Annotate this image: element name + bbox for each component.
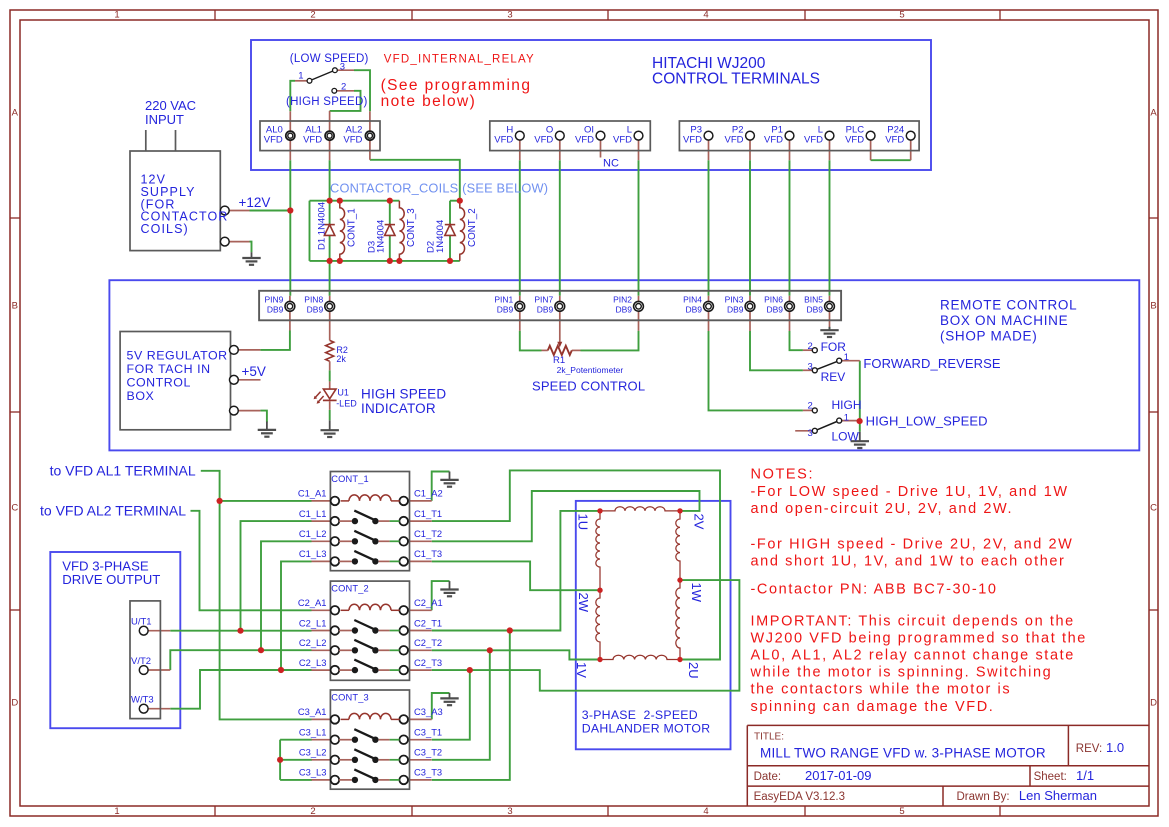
svg-text:3: 3 <box>507 10 512 21</box>
svg-text:CONTROL TERMINALS: CONTROL TERMINALS <box>652 71 820 88</box>
svg-text:INPUT: INPUT <box>145 112 184 127</box>
svg-text:Date:: Date: <box>754 771 782 783</box>
svg-text:VFD: VFD <box>494 134 513 145</box>
svg-text:5: 5 <box>899 806 904 817</box>
svg-text:DB9: DB9 <box>766 305 783 315</box>
svg-text:1N4004: 1N4004 <box>435 220 446 253</box>
svg-text:B: B <box>1150 301 1156 312</box>
svg-text:C3_L1: C3_L1 <box>299 727 327 738</box>
svg-text:C2_T1: C2_T1 <box>414 617 442 628</box>
svg-text:2V: 2V <box>692 514 707 530</box>
svg-text:DRIVE OUTPUT: DRIVE OUTPUT <box>62 572 160 587</box>
svg-text:220 VAC: 220 VAC <box>145 98 196 113</box>
svg-text:C3_T2: C3_T2 <box>414 747 442 758</box>
svg-text:1U: 1U <box>576 514 591 531</box>
svg-text:4: 4 <box>703 10 708 21</box>
svg-text:V/T2: V/T2 <box>131 656 151 667</box>
svg-text:CONT_1: CONT_1 <box>331 474 369 484</box>
svg-text:DB9: DB9 <box>806 305 823 315</box>
svg-text:HIGH SPEED: HIGH SPEED <box>361 387 446 402</box>
svg-text:WJ200 VFD being programmed so: WJ200 VFD being programmed so that the <box>751 630 1087 646</box>
svg-text:1W: 1W <box>689 583 704 603</box>
svg-text:LOW: LOW <box>832 429 860 443</box>
svg-text:3: 3 <box>808 428 813 439</box>
svg-text:VFD: VFD <box>534 134 553 145</box>
svg-text:C1_T2: C1_T2 <box>414 528 442 539</box>
svg-text:HITACHI WJ200: HITACHI WJ200 <box>652 55 766 72</box>
svg-text:C2_L2: C2_L2 <box>299 637 327 648</box>
svg-text:3: 3 <box>808 361 813 372</box>
svg-text:C1_L3: C1_L3 <box>299 548 327 559</box>
svg-text:to VFD AL1 TERMINAL: to VFD AL1 TERMINAL <box>50 463 196 479</box>
svg-text:REV: REV <box>821 370 846 384</box>
svg-text:-LED: -LED <box>336 399 357 409</box>
svg-text:A: A <box>1150 108 1157 119</box>
svg-text:PIN1: PIN1 <box>494 295 513 305</box>
svg-text:VFD: VFD <box>343 134 362 145</box>
svg-text:C1_L1: C1_L1 <box>299 508 327 519</box>
svg-text:C: C <box>11 503 18 514</box>
svg-text:CONT_3: CONT_3 <box>406 208 417 247</box>
svg-text:2U: 2U <box>686 662 701 679</box>
svg-text:Sheet:: Sheet: <box>1034 771 1067 783</box>
svg-text:C1_A1: C1_A1 <box>298 488 327 499</box>
svg-text:-Contactor PN: ABB BC7-30-10: -Contactor PN: ABB BC7-30-10 <box>751 581 998 597</box>
svg-text:C2_T3: C2_T3 <box>414 657 442 668</box>
svg-text:C1_L2: C1_L2 <box>299 528 327 539</box>
svg-text:+5V: +5V <box>242 364 266 379</box>
svg-text:2W: 2W <box>576 593 591 613</box>
svg-text:DB9: DB9 <box>615 305 632 315</box>
svg-text:3: 3 <box>340 61 345 72</box>
svg-text:COILS): COILS) <box>141 222 189 236</box>
svg-text:+12V: +12V <box>239 195 271 210</box>
svg-text:Drawn By:: Drawn By: <box>957 791 1010 803</box>
svg-text:C2_A1: C2_A1 <box>414 597 443 608</box>
svg-text:1/1: 1/1 <box>1076 768 1094 783</box>
svg-text:C3_A1: C3_A1 <box>298 706 327 717</box>
svg-text:VFD: VFD <box>613 134 632 145</box>
svg-text:C3_L3: C3_L3 <box>299 767 327 778</box>
svg-text:2: 2 <box>808 400 813 411</box>
svg-text:HIGH_LOW_SPEED: HIGH_LOW_SPEED <box>866 414 988 429</box>
svg-text:IMPORTANT: This circuit depend: IMPORTANT: This circuit depends on the <box>751 613 1075 629</box>
svg-text:PIN3: PIN3 <box>725 295 744 305</box>
svg-text:CONT_3: CONT_3 <box>331 692 369 702</box>
svg-text:1.0: 1.0 <box>1106 740 1124 755</box>
svg-text:D: D <box>11 698 18 709</box>
svg-text:C1_T1: C1_T1 <box>414 508 442 519</box>
svg-text:C2_T2: C2_T2 <box>414 637 442 648</box>
svg-text:BOX ON MACHINE: BOX ON MACHINE <box>940 313 1068 328</box>
svg-text:CONTROL: CONTROL <box>127 376 191 390</box>
svg-text:Len Sherman: Len Sherman <box>1019 788 1097 803</box>
svg-text:C: C <box>1150 503 1157 514</box>
svg-text:FOR: FOR <box>821 340 847 354</box>
svg-text:BIN5: BIN5 <box>804 295 823 305</box>
svg-text:(LOW SPEED): (LOW SPEED) <box>290 53 369 65</box>
svg-text:CONT_2: CONT_2 <box>331 584 369 594</box>
svg-text:2: 2 <box>808 341 813 352</box>
svg-text:C3_T1: C3_T1 <box>414 727 442 738</box>
svg-text:while the motor is spinning. S: while the motor is spinning. Switching <box>750 665 1053 681</box>
svg-text:VFD: VFD <box>845 134 864 145</box>
svg-text:VFD: VFD <box>303 134 322 145</box>
svg-text:PIN4: PIN4 <box>683 295 702 305</box>
svg-text:2: 2 <box>310 806 315 817</box>
svg-text:C3_A3: C3_A3 <box>414 706 443 717</box>
svg-text:TITLE:: TITLE: <box>754 732 784 743</box>
svg-text:(See programming: (See programming <box>381 77 532 94</box>
svg-text:and open-circuit 2U, 2V, and 2: and open-circuit 2U, 2V, and 2W. <box>751 501 1014 517</box>
svg-text:CONTACTOR_COILS (SEE BELOW): CONTACTOR_COILS (SEE BELOW) <box>330 181 548 196</box>
svg-text:DB9: DB9 <box>307 305 324 315</box>
svg-text:U/T1: U/T1 <box>131 617 152 628</box>
svg-text:A: A <box>12 108 19 119</box>
svg-text:CONT_1: CONT_1 <box>347 208 358 247</box>
svg-text:(HIGH SPEED): (HIGH SPEED) <box>286 96 368 108</box>
svg-text:C2_A1: C2_A1 <box>298 597 327 608</box>
svg-text:2k: 2k <box>336 354 346 364</box>
svg-text:VFD: VFD <box>804 134 823 145</box>
svg-text:C2_L1: C2_L1 <box>299 617 327 628</box>
svg-text:DB9: DB9 <box>727 305 744 315</box>
svg-text:-For LOW speed - Drive 1U, 1V,: -For LOW speed - Drive 1U, 1V, and 1W <box>751 484 1069 500</box>
svg-text:VFD: VFD <box>683 134 702 145</box>
svg-text:REMOTE CONTROL: REMOTE CONTROL <box>940 298 1077 313</box>
svg-text:INDICATOR: INDICATOR <box>361 401 436 416</box>
svg-text:VFD: VFD <box>885 134 904 145</box>
svg-text:AL0, AL1, AL2 relay cannot cha: AL0, AL1, AL2 relay cannot change state <box>751 648 1075 664</box>
svg-text:2017-01-09: 2017-01-09 <box>805 768 872 783</box>
svg-text:SPEED CONTROL: SPEED CONTROL <box>532 379 645 394</box>
svg-text:VFD: VFD <box>764 134 783 145</box>
svg-text:1: 1 <box>844 412 849 423</box>
svg-text:C3_L2: C3_L2 <box>299 747 327 758</box>
svg-text:NC: NC <box>603 158 619 170</box>
svg-text:2: 2 <box>341 82 346 93</box>
svg-text:MILL TWO RANGE VFD w. 3-PHASE: MILL TWO RANGE VFD w. 3-PHASE MOTOR <box>760 746 1046 761</box>
svg-text:3-PHASE 2-SPEED: 3-PHASE 2-SPEED <box>582 708 698 722</box>
svg-text:PIN6: PIN6 <box>764 295 783 305</box>
svg-text:FOR TACH IN: FOR TACH IN <box>127 362 211 376</box>
svg-text:DAHLANDER MOTOR: DAHLANDER MOTOR <box>582 722 711 736</box>
svg-text:D: D <box>1150 698 1157 709</box>
svg-text:1: 1 <box>114 10 119 21</box>
svg-text:and short 1U, 1V, and 1W to ea: and short 1U, 1V, and 1W to each other <box>751 554 1066 570</box>
svg-text:DB9: DB9 <box>497 305 514 315</box>
svg-text:C2_L3: C2_L3 <box>299 657 327 668</box>
svg-text:B: B <box>12 301 18 312</box>
svg-text:5: 5 <box>899 10 904 21</box>
svg-text:W/T3: W/T3 <box>131 695 154 706</box>
svg-text:1: 1 <box>114 806 119 817</box>
svg-text:EasyEDA V3.12.3: EasyEDA V3.12.3 <box>754 791 845 803</box>
svg-text:4: 4 <box>703 806 708 817</box>
svg-text:PIN2: PIN2 <box>613 295 632 305</box>
svg-text:to VFD AL2 TERMINAL: to VFD AL2 TERMINAL <box>40 503 186 519</box>
svg-text:PIN7: PIN7 <box>534 295 553 305</box>
svg-text:VFD: VFD <box>725 134 744 145</box>
svg-text:DB9: DB9 <box>267 305 284 315</box>
svg-text:PIN8: PIN8 <box>304 295 323 305</box>
svg-text:FORWARD_REVERSE: FORWARD_REVERSE <box>863 356 1001 371</box>
svg-text:DB9: DB9 <box>685 305 702 315</box>
svg-text:DB9: DB9 <box>537 305 554 315</box>
svg-text:C3_T3: C3_T3 <box>414 767 442 778</box>
svg-text:1N4004: 1N4004 <box>375 220 386 253</box>
svg-text:1V: 1V <box>574 662 589 678</box>
svg-text:5V REGULATOR: 5V REGULATOR <box>127 349 228 363</box>
svg-text:REV:: REV: <box>1076 743 1102 755</box>
svg-text:2: 2 <box>310 10 315 21</box>
svg-text:U1: U1 <box>337 387 349 397</box>
svg-text:VFD: VFD <box>575 134 594 145</box>
svg-text:CONT_2: CONT_2 <box>467 208 478 247</box>
svg-text:HIGH: HIGH <box>832 398 862 412</box>
svg-text:C1_T3: C1_T3 <box>414 548 442 559</box>
svg-text:2k_Potentiometer: 2k_Potentiometer <box>557 365 624 375</box>
svg-text:(SHOP MADE): (SHOP MADE) <box>940 329 1037 344</box>
svg-text:1: 1 <box>298 71 303 82</box>
svg-text:VFD_INTERNAL_RELAY: VFD_INTERNAL_RELAY <box>384 53 535 65</box>
svg-text:VFD: VFD <box>264 134 283 145</box>
svg-text:-For HIGH speed - Drive 2U, 2V: -For HIGH speed - Drive 2U, 2V, and 2W <box>751 537 1074 553</box>
svg-text:NOTES:: NOTES: <box>751 467 815 483</box>
svg-text:spinning can damage the VFD.: spinning can damage the VFD. <box>751 699 995 715</box>
svg-text:PIN9: PIN9 <box>264 295 283 305</box>
svg-text:3: 3 <box>507 806 512 817</box>
svg-text:note below): note below) <box>381 93 477 110</box>
svg-text:D1 1N4004: D1 1N4004 <box>317 202 328 250</box>
svg-text:the contactors while the motor: the contactors while the motor is <box>751 682 1012 698</box>
svg-text:BOX: BOX <box>127 389 155 403</box>
svg-text:C1_A2: C1_A2 <box>414 488 443 499</box>
